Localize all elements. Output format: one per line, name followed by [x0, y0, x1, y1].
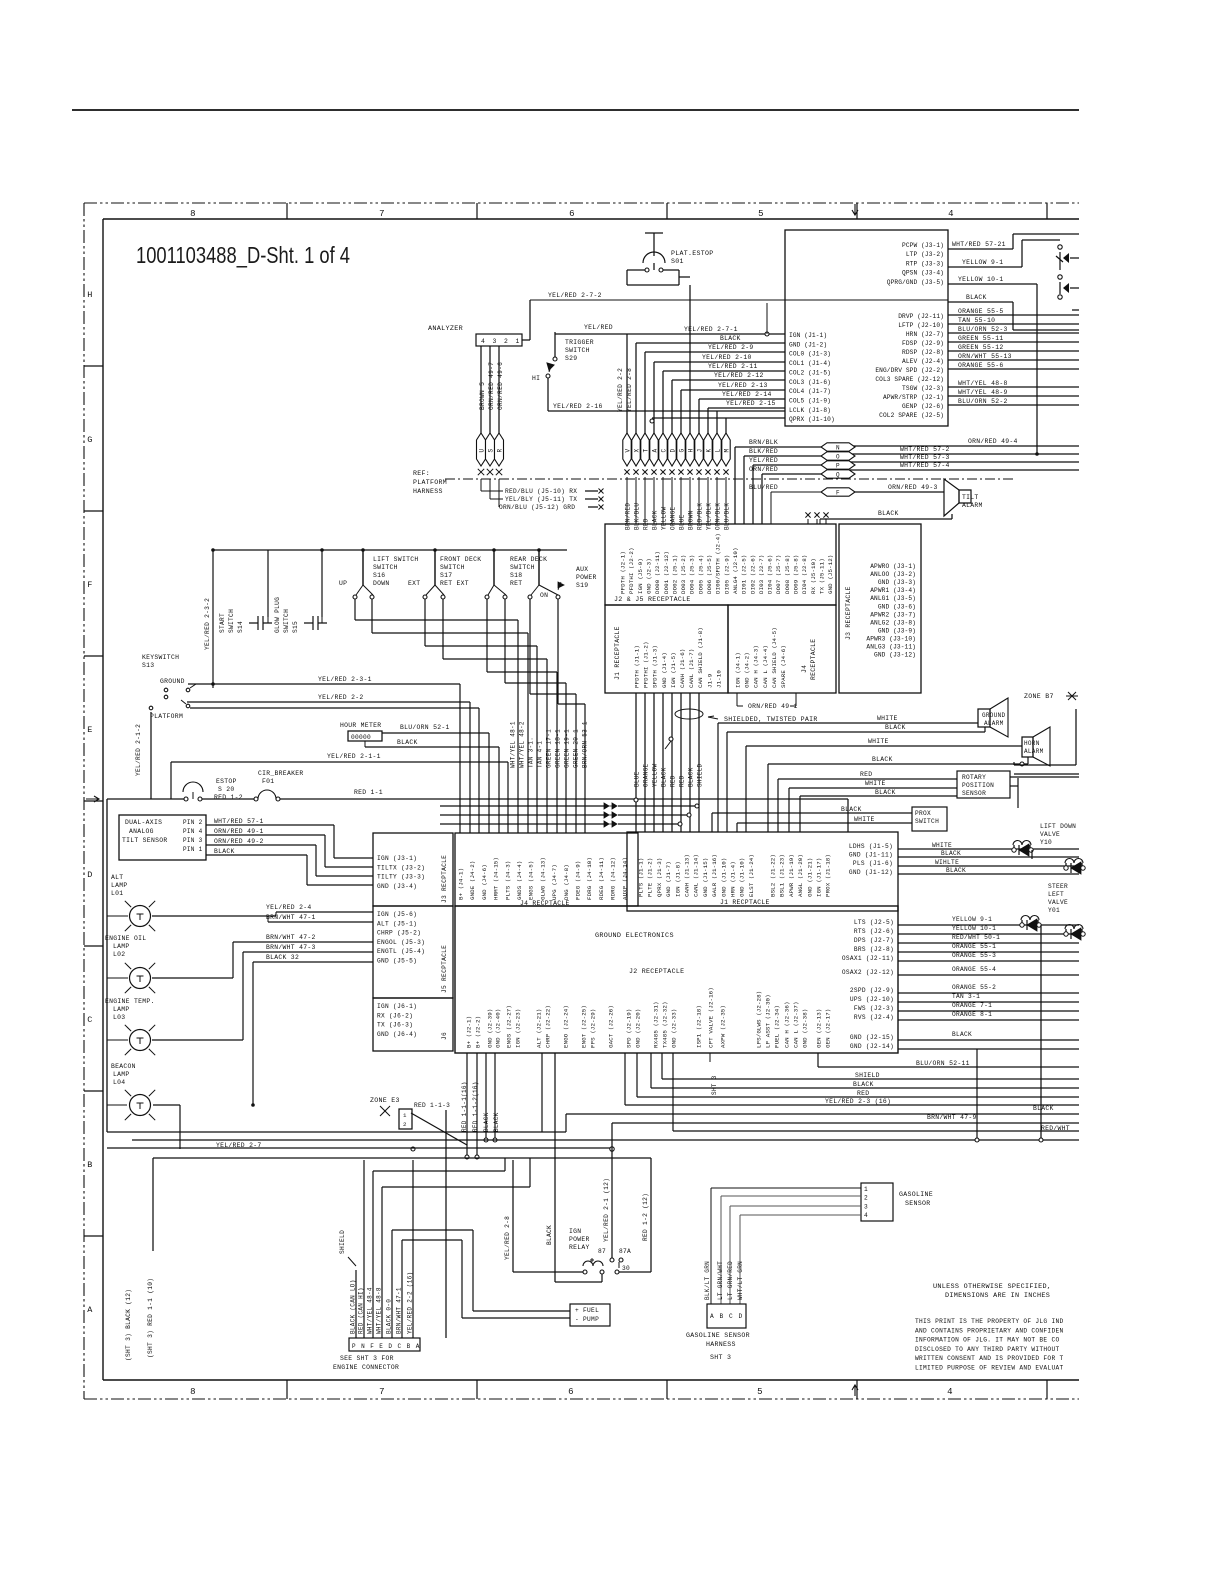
svg-text:2: 2: [864, 1195, 868, 1202]
svg-text:BLACK: BLACK: [941, 850, 961, 857]
svg-text:APWR (J1-19): APWR (J1-19): [788, 854, 795, 897]
svg-text:YEL/RED 2-3 (16): YEL/RED 2-3 (16): [825, 1098, 891, 1105]
svg-text:CHRP (J2-22): CHRP (J2-22): [545, 1005, 552, 1048]
svg-text:A: A: [416, 1343, 420, 1350]
svg-text:BLU/ORN 52-2: BLU/ORN 52-2: [958, 398, 1008, 405]
svg-text:YEL/RED 2-2: YEL/RED 2-2: [617, 368, 624, 412]
svg-text:YEL/RED 2-8: YEL/RED 2-8: [504, 1216, 511, 1260]
svg-text:RED/BLK: RED/BLK: [697, 503, 704, 530]
svg-text:YEL/RED: YEL/RED: [749, 457, 778, 464]
svg-text:LAMP: LAMP: [113, 1006, 130, 1013]
svg-text:GND (J5-5): GND (J5-5): [377, 958, 417, 965]
svg-text:YELLOW: YELLOW: [661, 506, 668, 530]
svg-text:DI00/SFDTH (J2-4): DI00/SFDTH (J2-4): [715, 533, 722, 594]
svg-text:DO03 (J5-2): DO03 (J5-2): [680, 555, 687, 594]
svg-text:GND (J1-12): GND (J1-12): [849, 869, 893, 876]
svg-text:1001103488_D-Sht. 1 of 4: 1001103488_D-Sht. 1 of 4: [136, 242, 350, 268]
svg-text:BLACK: BLACK: [952, 1031, 972, 1038]
svg-text:J: J: [696, 449, 703, 453]
svg-text:U: U: [478, 449, 485, 453]
svg-text:CANL (J1-7): CANL (J1-7): [688, 649, 695, 688]
svg-text:1: 1: [516, 338, 520, 345]
svg-text:BLACK: BLACK: [688, 767, 695, 787]
svg-text:GLWG (J4-13): GLWG (J4-13): [539, 857, 546, 900]
svg-text:PLAT.ESTOP: PLAT.ESTOP: [671, 250, 714, 257]
svg-text:YELLOW: YELLOW: [652, 763, 659, 787]
svg-text:CAN SHIELD (J1-8): CAN SHIELD (J1-8): [697, 627, 704, 688]
svg-text:BLU/RED: BLU/RED: [749, 484, 778, 491]
svg-text:ORN/RED 49-3: ORN/RED 49-3: [888, 484, 938, 491]
svg-text:CPT VALVE (J2-16): CPT VALVE (J2-16): [708, 987, 715, 1048]
svg-text:ORANGE 55-5: ORANGE 55-5: [958, 308, 1004, 315]
svg-text:ELST (J1-24): ELST (J1-24): [748, 854, 755, 897]
svg-text:ANGL (J1-20): ANGL (J1-20): [797, 854, 804, 897]
svg-text:B+ (J2-2): B+ (J2-2): [475, 1016, 482, 1048]
svg-text:RDRG (J4-12): RDRG (J4-12): [610, 857, 617, 900]
svg-text:INFORMATION OF JLG. IT MAY NO: INFORMATION OF JLG. IT MAY NOT BE CO: [915, 1337, 1059, 1344]
svg-text:YEL/RED 2-14: YEL/RED 2-14: [722, 391, 772, 398]
svg-text:DI05 (J2-9): DI05 (J2-9): [723, 555, 730, 594]
svg-text:GROUND: GROUND: [982, 712, 1006, 719]
svg-text:CANH (J1-6): CANH (J1-6): [679, 649, 686, 688]
svg-text:RED 1-2: RED 1-2: [214, 794, 243, 801]
svg-text:WHT/RED 57-1: WHT/RED 57-1: [214, 818, 264, 825]
svg-text:BLACK: BLACK: [878, 510, 899, 517]
svg-text:2: 2: [504, 338, 508, 345]
svg-text:B: B: [87, 1160, 92, 1170]
svg-text:HI: HI: [532, 375, 540, 382]
svg-text:RED/WHT 50-1: RED/WHT 50-1: [952, 934, 1000, 941]
svg-text:D: D: [739, 1313, 743, 1320]
svg-text:4: 4: [947, 1387, 953, 1397]
svg-text:S 20: S 20: [218, 786, 235, 793]
svg-text:GACT (J2-26): GACT (J2-26): [608, 1005, 615, 1048]
svg-text:ANLOO (J3-2): ANLOO (J3-2): [870, 571, 916, 578]
svg-text:1: 1: [403, 1112, 407, 1119]
svg-text:APWRO (J3-1): APWRO (J3-1): [870, 563, 916, 570]
svg-text:ORANGE 55-3: ORANGE 55-3: [952, 952, 996, 959]
svg-text:RX (J5-10): RX (J5-10): [810, 558, 817, 594]
svg-text:ALARM: ALARM: [1024, 748, 1044, 755]
svg-text:(SHT 3) BLACK (12): (SHT 3) BLACK (12): [125, 1289, 132, 1361]
svg-text:TAN 3-1: TAN 3-1: [952, 993, 980, 1000]
svg-text:S16: S16: [373, 572, 385, 579]
svg-text:3: 3: [493, 338, 497, 345]
svg-text:WIHLTE: WIHLTE: [935, 859, 959, 866]
svg-text:BLACK: BLACK: [1033, 1105, 1054, 1112]
svg-text:CANL (J1-14): CANL (J1-14): [693, 854, 700, 897]
svg-text:A: A: [651, 449, 658, 453]
svg-text:H: H: [687, 449, 694, 453]
svg-text:C: C: [729, 1313, 733, 1320]
svg-text:GND (J4-2): GND (J4-2): [744, 652, 751, 688]
svg-text:SPARE (J4-6): SPARE (J4-6): [780, 645, 787, 688]
svg-text:LFTP (J2-10): LFTP (J2-10): [898, 322, 944, 329]
svg-text:IGN (J4-1): IGN (J4-1): [735, 652, 742, 688]
svg-text:BLACK: BLACK: [661, 767, 668, 787]
svg-text:CAN L (J2-37): CAN L (J2-37): [793, 1001, 800, 1048]
svg-text:SHIELD: SHIELD: [339, 1230, 346, 1254]
svg-text:O: O: [836, 453, 840, 460]
svg-text:F: F: [836, 489, 840, 496]
svg-text:SENSOR: SENSOR: [962, 790, 986, 797]
svg-text:GREEN 19-1: GREEN 19-1: [564, 729, 571, 768]
svg-text:ORN/BLK: ORN/BLK: [715, 503, 722, 530]
svg-text:X: X: [633, 449, 640, 453]
svg-text:RED 1-1-2(16): RED 1-1-2(16): [472, 1081, 479, 1132]
svg-text:YEL/RED 2-10: YEL/RED 2-10: [702, 354, 752, 361]
svg-text:ENGS (J2-27): ENGS (J2-27): [506, 1005, 513, 1048]
svg-text:GND (J4-6): GND (J4-6): [481, 864, 488, 900]
svg-text:POWER: POWER: [569, 1236, 590, 1243]
svg-text:CAN H (J4-3): CAN H (J4-3): [753, 645, 760, 688]
svg-text:D: D: [87, 870, 92, 880]
svg-text:BLACK: BLACK: [841, 806, 862, 813]
svg-text:REF:: REF:: [413, 470, 430, 477]
svg-text:ANLG2 (J3-8): ANLG2 (J3-8): [870, 619, 916, 626]
svg-text:ANLG1 (J3-5): ANLG1 (J3-5): [870, 595, 916, 602]
svg-text:FUEL (J2-34): FUEL (J2-34): [774, 1005, 781, 1048]
svg-text:3: 3: [864, 1203, 868, 1210]
svg-text:ORANGE 8-1: ORANGE 8-1: [952, 1011, 992, 1018]
svg-text:LEFT: LEFT: [1048, 891, 1064, 898]
svg-text:D: D: [388, 1343, 392, 1350]
svg-text:YEL/RED 2-7-2: YEL/RED 2-7-2: [548, 292, 602, 299]
svg-text:PLTE (J1-2): PLTE (J1-2): [647, 858, 654, 897]
svg-text:J5 RECPTACLE: J5 RECPTACLE: [441, 945, 448, 993]
svg-text:BLK/BLU: BLK/BLU: [634, 503, 641, 530]
svg-text:AND CONTAINS PROPRIETARY AND C: AND CONTAINS PROPRIETARY AND CONFIDEN: [915, 1327, 1064, 1334]
svg-text:DOWN: DOWN: [373, 580, 390, 587]
svg-text:RX (J6-2): RX (J6-2): [377, 1012, 413, 1019]
svg-text:87A: 87A: [619, 1248, 631, 1255]
svg-text:HRMT (J4-15): HRMT (J4-15): [493, 857, 500, 900]
svg-text:C: C: [398, 1343, 402, 1350]
svg-text:ALT (J2-21): ALT (J2-21): [536, 1009, 543, 1048]
svg-text:GND (J3-12): GND (J3-12): [874, 652, 916, 659]
svg-text:APWR/STRP (J2-1): APWR/STRP (J2-1): [883, 394, 944, 401]
svg-text:ORN/BLU (J5-12) GRD: ORN/BLU (J5-12) GRD: [499, 504, 575, 511]
svg-text:VALVE: VALVE: [1048, 899, 1068, 906]
svg-text:YEL/RED 2-4: YEL/RED 2-4: [266, 904, 312, 911]
svg-text:ENGINE OIL: ENGINE OIL: [105, 935, 146, 942]
svg-text:00000: 00000: [351, 734, 371, 741]
svg-text:YEL/BLY (J5-11) TX: YEL/BLY (J5-11) TX: [505, 496, 577, 503]
svg-text:RED: RED: [670, 775, 677, 787]
svg-text:PIN 2: PIN 2: [183, 819, 203, 826]
svg-text:WHT/RED 57-4: WHT/RED 57-4: [900, 462, 950, 469]
svg-text:L03: L03: [113, 1014, 125, 1021]
svg-text:PFDTH (J2-1): PFDTH (J2-1): [620, 551, 627, 594]
svg-text:GND (J1-21): GND (J1-21): [806, 858, 813, 897]
svg-text:BLACK: BLACK: [214, 848, 235, 855]
svg-text:ENGOL (J5-3): ENGOL (J5-3): [377, 939, 425, 946]
svg-text:FDSP (J2-9): FDSP (J2-9): [902, 340, 944, 347]
svg-text:L01: L01: [111, 890, 123, 897]
svg-text:GND (J3-3): GND (J3-3): [878, 579, 916, 586]
svg-text:S13: S13: [142, 662, 154, 669]
svg-text:BLACK: BLACK: [546, 1225, 553, 1245]
svg-text:K: K: [705, 449, 712, 453]
svg-text:PFDTHI (J1-2): PFDTHI (J1-2): [643, 641, 650, 688]
svg-text:F01: F01: [262, 778, 274, 785]
svg-text:DI01 (J2-5): DI01 (J2-5): [741, 555, 748, 594]
svg-text:ENGINE CONNECTOR: ENGINE CONNECTOR: [333, 1364, 399, 1371]
svg-text:G: G: [87, 435, 92, 445]
svg-text:BLACK: BLACK: [493, 1112, 500, 1132]
svg-text:WHITE: WHITE: [877, 715, 898, 722]
svg-text:HRN (J2-7): HRN (J2-7): [906, 331, 944, 338]
svg-text:BLACK 32: BLACK 32: [266, 954, 299, 961]
svg-text:BEACON: BEACON: [111, 1063, 136, 1070]
svg-text:F: F: [87, 580, 92, 590]
svg-text:GND (J3-6): GND (J3-6): [878, 603, 916, 610]
svg-text:BLU/ORN 52-11: BLU/ORN 52-11: [916, 1060, 970, 1067]
svg-text:QPSN (J3-4): QPSN (J3-4): [902, 270, 944, 277]
svg-text:GEN (J2-13): GEN (J2-13): [816, 1009, 823, 1048]
svg-text:ANALOG: ANALOG: [129, 828, 154, 835]
svg-text:BROWN: BROWN: [688, 510, 695, 530]
svg-text:UP: UP: [339, 580, 347, 587]
svg-text:ESTOP: ESTOP: [216, 778, 237, 785]
svg-text:B: B: [720, 1313, 724, 1320]
svg-text:J3 RECPTACLE: J3 RECPTACLE: [441, 855, 448, 903]
svg-text:CIR_BREAKER: CIR_BREAKER: [258, 770, 304, 777]
svg-text:TILTX (J3-2): TILTX (J3-2): [377, 864, 425, 871]
svg-text:5: 5: [757, 1387, 763, 1397]
svg-text:BLACK: BLACK: [872, 756, 893, 763]
svg-text:GREEN 18-1: GREEN 18-1: [555, 729, 562, 768]
svg-text:ANLG4 (J2-10): ANLG4 (J2-10): [732, 547, 739, 594]
svg-text:TAN 55-10: TAN 55-10: [958, 317, 995, 324]
svg-text:LIFT SWITCH: LIFT SWITCH: [373, 556, 419, 563]
svg-text:BRN/ORN 53-1: BRN/ORN 53-1: [582, 721, 589, 768]
svg-text:WHT/YEL 48-2: WHT/YEL 48-2: [519, 721, 526, 768]
svg-text:TILT: TILT: [962, 494, 979, 501]
svg-text:YEL/RED 2-16: YEL/RED 2-16: [553, 403, 603, 410]
svg-text:SWITCH: SWITCH: [510, 564, 535, 571]
svg-text:L02: L02: [113, 951, 125, 958]
svg-text:GREEN 17-1: GREEN 17-1: [546, 729, 553, 768]
svg-text:RELAY: RELAY: [569, 1244, 590, 1251]
svg-text:THIS PRINT IS THE PROPERTY OF: THIS PRINT IS THE PROPERTY OF JLG IND: [915, 1318, 1064, 1325]
svg-text:YELLOW 9-1: YELLOW 9-1: [952, 916, 992, 923]
svg-text:GND (J1-10): GND (J1-10): [739, 858, 746, 897]
svg-text:SHT 3: SHT 3: [710, 1354, 731, 1361]
svg-text:YEL/RED 2-3-1: YEL/RED 2-3-1: [318, 676, 372, 683]
svg-text:LT GRN/RED: LT GRN/RED: [727, 1261, 734, 1300]
svg-text:S15: S15: [292, 621, 299, 633]
svg-text:GND (J3-9): GND (J3-9): [878, 627, 916, 634]
svg-text:FDEG (J4-9): FDEG (J4-9): [575, 861, 582, 900]
svg-text:ORN/RED: ORN/RED: [749, 466, 778, 473]
svg-text:CANH (J1-13): CANH (J1-13): [684, 854, 691, 897]
svg-text:YELLOW 10-1: YELLOW 10-1: [958, 276, 1004, 283]
svg-text:SPD (J2-19): SPD (J2-19): [626, 1009, 633, 1048]
svg-text:P: P: [352, 1343, 356, 1350]
svg-text:F: F: [370, 1343, 374, 1350]
svg-text:S: S: [487, 449, 494, 453]
svg-text:BLU/ORN 52-1: BLU/ORN 52-1: [400, 724, 450, 731]
svg-text:WHT/RED 57-3: WHT/RED 57-3: [900, 454, 950, 461]
svg-text:87: 87: [598, 1248, 606, 1255]
svg-text:ISP1 (J2-18): ISP1 (J2-18): [696, 1005, 703, 1048]
svg-text:YELLOW 9-1: YELLOW 9-1: [962, 259, 1003, 266]
svg-text:COL4 (J1-7): COL4 (J1-7): [789, 388, 831, 395]
svg-text:WHITE: WHITE: [854, 816, 875, 823]
svg-text:WHITE: WHITE: [868, 738, 889, 745]
svg-text:WHT/RED 57-2: WHT/RED 57-2: [900, 446, 950, 453]
svg-text:L04: L04: [113, 1079, 125, 1086]
svg-text:GREEN 20-1: GREEN 20-1: [573, 729, 580, 768]
svg-text:ANLG3 (J3-11): ANLG3 (J3-11): [866, 644, 916, 651]
svg-text:START: START: [219, 613, 226, 633]
svg-text:LAMP: LAMP: [113, 1071, 130, 1078]
svg-text:ORANGE: ORANGE: [670, 506, 677, 530]
svg-text:7: 7: [379, 209, 385, 219]
svg-text:ALT: ALT: [111, 874, 123, 881]
svg-text:DNG (J4-8): DNG (J4-8): [563, 864, 570, 900]
svg-text:WHT/LT GRN: WHT/LT GRN: [737, 1261, 744, 1300]
svg-text:ON: ON: [540, 592, 548, 599]
svg-text:DO02 (J5-1): DO02 (J5-1): [671, 555, 678, 594]
svg-text:V: V: [624, 449, 631, 453]
svg-text:PIN 1: PIN 1: [183, 846, 203, 853]
svg-text:RET EXT: RET EXT: [440, 580, 469, 587]
svg-text:RTP (J3-3): RTP (J3-3): [906, 260, 944, 267]
svg-text:PFDTH (J1-1): PFDTH (J1-1): [634, 645, 641, 688]
svg-text:DO08 (J5-8): DO08 (J5-8): [784, 555, 791, 594]
svg-text:QPRX (J1-3): QPRX (J1-3): [656, 858, 663, 897]
svg-text:COL2 SPARE (J2-5): COL2 SPARE (J2-5): [879, 412, 944, 419]
svg-text:LCLK (J1-8): LCLK (J1-8): [789, 407, 831, 414]
svg-text:ORN/RED 49-4: ORN/RED 49-4: [968, 438, 1018, 445]
svg-text:B+ (J2-1): B+ (J2-1): [466, 1016, 473, 1048]
svg-text:TAN 3-1.: TAN 3-1.: [528, 737, 535, 768]
svg-text:COL3 (J1-6): COL3 (J1-6): [789, 379, 831, 386]
svg-text:RED: RED: [679, 775, 686, 787]
svg-text:YEL/RED 2-1-2: YEL/RED 2-1-2: [135, 724, 142, 776]
svg-text:BROWN 5: BROWN 5: [479, 382, 486, 410]
svg-text:ENGO (J2-24): ENGO (J2-24): [563, 1005, 570, 1048]
svg-text:DRVP (J2-11): DRVP (J2-11): [898, 313, 944, 320]
svg-text:IGN (J3-1): IGN (J3-1): [377, 855, 417, 862]
svg-text:B: B: [407, 1343, 411, 1350]
svg-text:RDEG (J4-11): RDEG (J4-11): [598, 857, 605, 900]
svg-text:QPRX (J1-10): QPRX (J1-10): [789, 416, 835, 423]
svg-text:BLACK: BLACK: [966, 294, 987, 301]
svg-text:FRONT DECK: FRONT DECK: [440, 556, 481, 563]
svg-text:BLACK: BLACK: [397, 739, 418, 746]
svg-text:RED/BLU (J5-10) RX: RED/BLU (J5-10) RX: [505, 488, 577, 495]
svg-text:A: A: [710, 1313, 714, 1320]
svg-text:APWR1 (J3-4): APWR1 (J3-4): [870, 587, 916, 594]
svg-text:BRN/RED: BRN/RED: [625, 503, 632, 530]
svg-text:GASOLINE SENSOR: GASOLINE SENSOR: [686, 1332, 750, 1339]
svg-text:RX485 (J2-31): RX485 (J2-31): [653, 1001, 660, 1048]
svg-text:DI04 (J2-8): DI04 (J2-8): [801, 555, 808, 594]
svg-text:30: 30: [622, 1265, 630, 1272]
svg-text:FPS (J2-29): FPS (J2-29): [590, 1009, 597, 1048]
svg-text:+ FUEL: + FUEL: [575, 1307, 599, 1314]
svg-text:YEL/RED 2-15: YEL/RED 2-15: [726, 400, 776, 407]
svg-text:1: 1: [864, 1186, 868, 1193]
svg-text:IGN: IGN: [569, 1228, 581, 1235]
svg-text:ORN/RED 49-7: ORN/RED 49-7: [488, 362, 495, 410]
svg-text:7: 7: [379, 1387, 385, 1397]
svg-text:SWITCH: SWITCH: [228, 609, 235, 633]
svg-text:YEL/RED 2-13: YEL/RED 2-13: [718, 382, 768, 389]
svg-text:GND (J1-4): GND (J1-4): [661, 652, 668, 688]
svg-text:4: 4: [948, 209, 954, 219]
svg-text:BRN/WHT 47-1: BRN/WHT 47-1: [266, 914, 316, 921]
svg-text:RED 1-1: RED 1-1: [354, 789, 383, 796]
svg-text:N: N: [361, 1343, 365, 1350]
svg-text:ENGS (J4-5): ENGS (J4-5): [528, 861, 535, 900]
svg-text:N: N: [836, 444, 840, 451]
svg-text:BLK/LT GRN: BLK/LT GRN: [704, 1261, 711, 1300]
svg-text:DISCLOSED TO ANY THIRD PARTY W: DISCLOSED TO ANY THIRD PARTY WITHOUT: [915, 1346, 1059, 1353]
svg-text:UPS (J2-10): UPS (J2-10): [850, 996, 894, 1003]
svg-text:HORN: HORN: [1024, 740, 1040, 747]
svg-text:S18: S18: [510, 572, 522, 579]
svg-text:PIN 4: PIN 4: [183, 828, 203, 835]
svg-text:WHT/RED 57-21: WHT/RED 57-21: [952, 241, 1006, 248]
svg-text:WHITE: WHITE: [865, 780, 886, 787]
svg-text:TILT SENSOR: TILT SENSOR: [122, 837, 168, 844]
svg-text:LDHS (J1-5): LDHS (J1-5): [849, 843, 893, 850]
svg-text:WRITTEN CONSENT AND IS PROVIDE: WRITTEN CONSENT AND IS PROVIDED FOR T: [915, 1355, 1064, 1362]
svg-text:GND (J2-38): GND (J2-38): [802, 1009, 809, 1048]
svg-text:PLATFORM: PLATFORM: [150, 713, 183, 720]
svg-text:IGN (J6-1): IGN (J6-1): [377, 1003, 417, 1010]
svg-text:SWITCH: SWITCH: [915, 818, 939, 825]
svg-text:IGN (J1-8): IGN (J1-8): [674, 861, 681, 897]
svg-text:TX (J6-3): TX (J6-3): [377, 1022, 413, 1029]
svg-text:GND (J2-20): GND (J2-20): [635, 1009, 642, 1048]
svg-text:S14: S14: [237, 621, 244, 633]
svg-text:BLACK: BLACK: [720, 335, 741, 342]
svg-text:DO07 (J5-7): DO07 (J5-7): [775, 555, 782, 594]
svg-text:AXPW (J2-35): AXPW (J2-35): [720, 1005, 727, 1048]
svg-text:IGN (J1-5): IGN (J1-5): [670, 652, 677, 688]
svg-text:TX485 (J2-32): TX485 (J2-32): [662, 1001, 669, 1048]
svg-text:8: 8: [190, 209, 196, 219]
svg-text:APWR3 (J3-10): APWR3 (J3-10): [866, 635, 916, 642]
svg-text:IGN (J2-23): IGN (J2-23): [515, 1009, 522, 1048]
svg-text:ALT (J5-1): ALT (J5-1): [377, 920, 417, 927]
svg-text:BLUE: BLUE: [679, 514, 686, 530]
svg-text:S29: S29: [565, 355, 577, 362]
svg-text:COL5 (J1-9): COL5 (J1-9): [789, 397, 831, 404]
svg-text:DUAL-AXIS: DUAL-AXIS: [125, 819, 162, 826]
svg-text:BRN/BLK: BRN/BLK: [749, 439, 778, 446]
svg-text:SHIELDED, TWISTED PAIR: SHIELDED, TWISTED PAIR: [724, 716, 818, 723]
svg-text:GREEN 55-12: GREEN 55-12: [958, 344, 1004, 351]
svg-text:PFDTHI (J2-2): PFDTHI (J2-2): [628, 547, 635, 594]
svg-text:UNLESS OTHERWISE SPECIFIED,: UNLESS OTHERWISE SPECIFIED,: [933, 1283, 1051, 1291]
svg-text:GREEN 55-11: GREEN 55-11: [958, 335, 1004, 342]
svg-text:BLACK: BLACK: [853, 1081, 874, 1088]
svg-text:FDRG (J4-10): FDRG (J4-10): [586, 857, 593, 900]
svg-text:L: L: [714, 449, 721, 453]
svg-text:WHT/YEL 48-1: WHT/YEL 48-1: [510, 721, 517, 768]
svg-text:DPS (J2-7): DPS (J2-7): [854, 937, 894, 944]
svg-text:J2 RECEPTACLE: J2 RECEPTACLE: [629, 968, 684, 975]
svg-text:GASOLINE: GASOLINE: [899, 1191, 933, 1198]
svg-text:IGN (J5-6): IGN (J5-6): [377, 911, 417, 918]
svg-text:E: E: [379, 1343, 383, 1350]
